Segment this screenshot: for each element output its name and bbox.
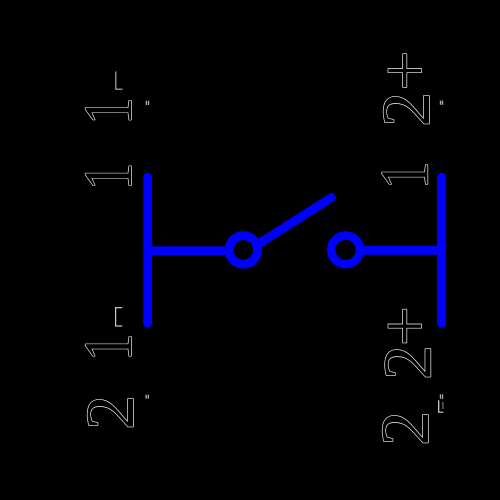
svg-text:+: + bbox=[367, 51, 445, 91]
pin 1.2 terminal bar (right vertical) bbox=[437, 177, 446, 323]
label bottom-right: period bbox=[440, 394, 443, 399]
wire: right lead from contact B to right bar bbox=[357, 246, 442, 255]
svg-text:1: 1 bbox=[69, 333, 146, 361]
label bottom-left: period bbox=[145, 395, 149, 399]
wire: left lead from left bar to contact A bbox=[148, 246, 232, 255]
svg-text:2: 2 bbox=[368, 92, 444, 127]
svg-text:1: 1 bbox=[69, 97, 146, 125]
switch contact circle B bbox=[331, 236, 360, 265]
switch contact circle A bbox=[229, 236, 257, 265]
pin 1.1 terminal bar (left vertical) bbox=[143, 177, 152, 323]
label top-left: minus sign bbox=[115, 72, 122, 90]
switch lever (open) bbox=[258, 198, 332, 245]
label bottom-right: small tick mark bbox=[438, 400, 443, 412]
label bottom-left: minus sign bbox=[115, 307, 122, 326]
svg-text:2: 2 bbox=[72, 395, 148, 430]
svg-text:2: 2 bbox=[370, 345, 446, 380]
svg-text:2: 2 bbox=[367, 411, 443, 446]
svg-text:+: + bbox=[367, 306, 445, 346]
label top-right: period bbox=[440, 101, 443, 105]
label top-left: period bbox=[146, 101, 150, 105]
svg-text:1: 1 bbox=[69, 163, 146, 191]
svg-text:1: 1 bbox=[366, 162, 443, 190]
